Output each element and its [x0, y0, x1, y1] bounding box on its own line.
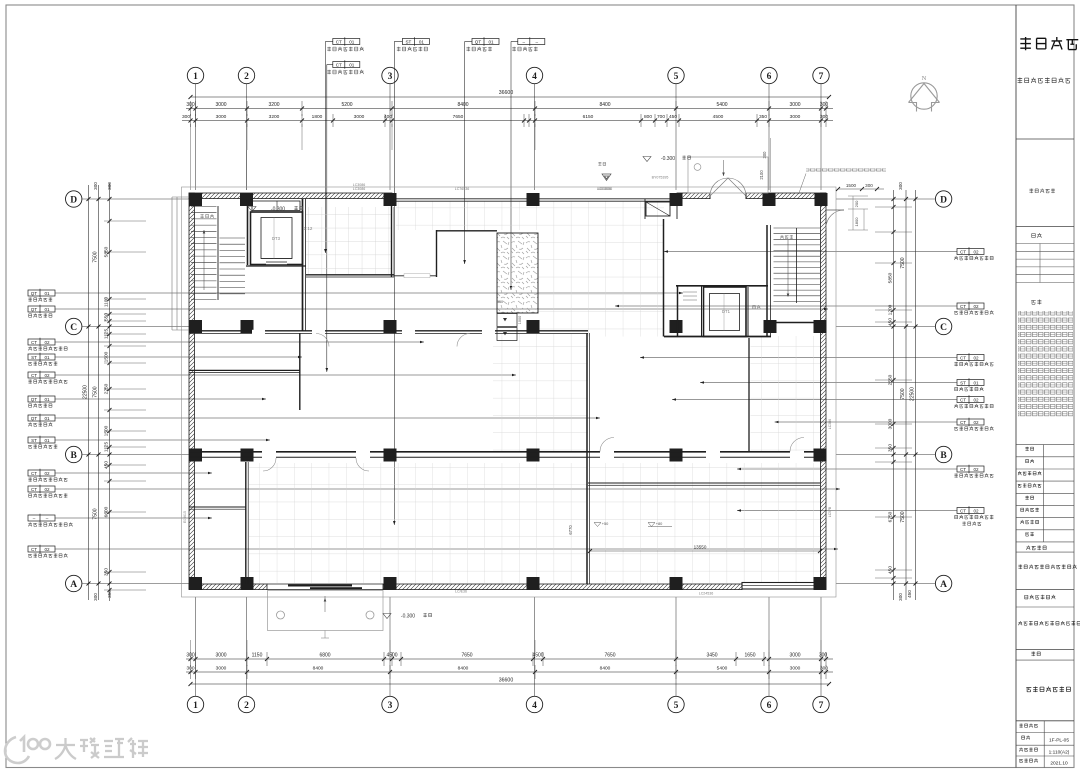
left dimension vertical lines — [88, 185, 90, 600]
right callout CT02 at y399.5 — [957, 397, 984, 403]
svg-text:450: 450 — [907, 590, 912, 598]
grid bubble 1 top — [187, 67, 203, 83]
right callout CT02 at y357.5 — [957, 355, 984, 361]
svg-text:1500: 1500 — [104, 425, 110, 436]
svg-text:3450: 3450 — [706, 653, 717, 659]
svg-text:4500: 4500 — [532, 653, 543, 659]
top witness line stubs — [190, 124, 192, 150]
svg-text:LC76536: LC76536 — [455, 187, 470, 191]
wall between stair and lift DT3 — [247, 199, 249, 265]
svg-text:3000: 3000 — [216, 666, 227, 672]
left callout ST01 at y440 — [28, 437, 55, 443]
stair 2 treads left flight — [191, 206, 217, 208]
svg-text:13550: 13550 — [694, 545, 707, 550]
title block divider above project section — [1016, 589, 1074, 591]
lift DT3 shaft — [251, 212, 303, 265]
ramp at left outside wall — [171, 197, 173, 330]
svg-text:CT: CT — [960, 304, 966, 309]
bottom exterior wall left segment — [189, 584, 267, 590]
door swing arcs at B wall — [600, 438, 614, 452]
bottom wall right corner segment — [817, 584, 826, 590]
grid line 6 bottom segment — [768, 597, 770, 696]
svg-text:1125: 1125 — [104, 329, 110, 340]
wall right of leaf room zone — [663, 219, 665, 337]
svg-text:CT: CT — [31, 373, 37, 378]
title block 工程项目名称 header — [1025, 595, 1056, 600]
svg-text:8400: 8400 — [599, 102, 610, 108]
svg-text:1800: 1800 — [312, 114, 323, 120]
svg-text:CT: CT — [31, 471, 37, 476]
top callout ST01 grey stone threshold — [402, 39, 429, 45]
svg-text:+80: +80 — [656, 521, 663, 526]
svg-text:01: 01 — [349, 39, 355, 44]
left dimension ticks — [87, 197, 91, 201]
grid line 7 bottom segment — [820, 597, 822, 696]
top callout CT01 600x600 anti-slip tile (lower) — [333, 62, 360, 68]
svg-text:5850: 5850 — [888, 272, 894, 283]
svg-text:3200: 3200 — [269, 114, 280, 120]
partition wall right of lift zone — [302, 199, 304, 331]
svg-text:D: D — [940, 195, 947, 205]
bottom dimension row 2 — [186, 671, 833, 673]
title block 图号 row — [1022, 736, 1030, 740]
exterior wall note with leader — [806, 169, 886, 174]
left callout ST01 at y357 — [28, 354, 55, 360]
left callout CT02 at y375 — [28, 372, 55, 378]
svg-text:3: 3 — [388, 72, 393, 82]
svg-text:LC01536: LC01536 — [598, 187, 613, 191]
bottom witness stubs — [190, 640, 192, 652]
svg-text:4: 4 — [532, 701, 537, 711]
svg-text:7500: 7500 — [900, 257, 906, 268]
svg-text:02: 02 — [973, 304, 979, 309]
stair 1 treads — [774, 227, 821, 229]
grid bubble 6 bottom — [761, 696, 777, 712]
stair 2 label — [200, 214, 213, 218]
entrance canopy bottom — [268, 591, 384, 631]
svg-text:BY075395: BY075395 — [652, 176, 669, 180]
tile floor area rooms right above B — [751, 336, 821, 451]
svg-text:300: 300 — [819, 653, 828, 659]
svg-text:CT: CT — [960, 508, 966, 513]
svg-text:01: 01 — [44, 355, 50, 360]
room partition wall below C at left — [299, 333, 301, 410]
svg-text:CT: CT — [336, 39, 342, 44]
svg-text:300: 300 — [820, 666, 828, 672]
svg-text:01: 01 — [488, 39, 494, 44]
grid bubble 7 bottom — [813, 696, 829, 712]
svg-text:D: D — [70, 195, 77, 205]
svg-text:3: 3 — [388, 701, 393, 711]
grid line 7 top segment — [820, 84, 822, 190]
svg-text:LC57B: LC57B — [828, 506, 832, 517]
north arrow symbol — [909, 83, 940, 112]
grid line 3 top segment — [389, 84, 391, 190]
grid bubble 2 top — [238, 67, 254, 83]
svg-text:7: 7 — [819, 72, 824, 82]
svg-text:ST: ST — [960, 380, 966, 385]
svg-text:7500: 7500 — [93, 386, 99, 397]
right callout CT02 at y251.5 — [957, 249, 984, 255]
svg-text:QT: QT — [31, 416, 38, 421]
grid row line A left — [82, 583, 189, 585]
wall below lift DT3 — [246, 265, 306, 267]
tile floor big bottom-left area — [249, 463, 587, 583]
svg-text:7650: 7650 — [461, 653, 472, 659]
svg-text:B: B — [71, 451, 78, 461]
level marker +80 — [648, 523, 655, 527]
svg-text:DT3: DT3 — [272, 236, 281, 241]
tile floor strip along top window band — [396, 201, 664, 230]
svg-text:3000: 3000 — [354, 114, 365, 120]
svg-text:CT: CT — [960, 420, 966, 425]
title block bottom info table — [1016, 720, 1074, 722]
svg-text:3000: 3000 — [215, 653, 226, 659]
grid bubble B right — [935, 446, 951, 462]
left callout –– at y518 — [28, 515, 55, 521]
svg-text:350: 350 — [759, 114, 767, 120]
tile floor big bottom-right area — [590, 463, 820, 583]
svg-text:300: 300 — [820, 114, 828, 120]
svg-text:1125: 1125 — [104, 442, 110, 453]
svg-text:LC3086: LC3086 — [353, 183, 366, 187]
bottom window band right — [742, 583, 817, 590]
svg-text:ST: ST — [405, 39, 411, 44]
svg-text:+50: +50 — [602, 521, 609, 526]
horizontal wall y371 left rooms — [189, 369, 300, 371]
stair 1 direction arrow — [787, 240, 789, 295]
right callout CT02 at y510.5 — [957, 508, 984, 514]
grid bubble A right — [935, 575, 951, 591]
svg-text:300: 300 — [898, 593, 903, 601]
watermark text 大数跨境 — [55, 738, 148, 759]
title block drawing title 一层地面铺装图 — [1026, 687, 1070, 693]
svg-text:01: 01 — [44, 307, 50, 312]
horizontal partition y484 right rooms — [588, 482, 820, 484]
svg-text:CT: CT — [960, 397, 966, 402]
title block project name 浙江高新区药物内部装修项目 — [1018, 621, 1080, 626]
stair 1 label — [780, 235, 793, 239]
title block signature table — [1016, 243, 1074, 245]
svg-text:02: 02 — [44, 487, 50, 492]
svg-text:CT: CT — [31, 547, 37, 552]
building outer offset outline — [182, 187, 837, 597]
svg-text:300: 300 — [93, 182, 98, 190]
right callout CT02 at y469 — [957, 466, 984, 472]
title block approval table — [1016, 444, 1074, 446]
svg-text:LC3086: LC3086 — [353, 187, 366, 191]
svg-text:36600: 36600 — [499, 678, 514, 684]
anti-static leaf pattern floor room — [497, 233, 538, 313]
title block small header text — [1029, 189, 1054, 194]
svg-text:8400: 8400 — [600, 666, 611, 672]
thin wall continuation with label — [394, 275, 437, 277]
svg-text:02: 02 — [973, 508, 979, 513]
grid bubble D left — [66, 191, 82, 207]
wall right edge of top-center tile room — [391, 199, 393, 277]
lift DT1 car — [710, 294, 740, 331]
svg-text:QT: QT — [475, 39, 482, 44]
smoke vent notch in top wall — [646, 202, 670, 216]
grid bubble 4 top — [526, 67, 542, 83]
tile floor area top-center 600x600 — [306, 207, 392, 274]
stair 1 stringer — [796, 228, 798, 303]
svg-text:-0.300: -0.300 — [271, 207, 285, 213]
svg-text:450: 450 — [669, 114, 677, 120]
grid bubble 3 bottom — [382, 696, 398, 712]
svg-text:QT: QT — [31, 291, 38, 296]
lift lobby top wall — [676, 285, 768, 287]
stair 2 treads right flight — [220, 237, 246, 239]
svg-text:8400: 8400 — [457, 102, 468, 108]
grid line 4 top segment — [534, 84, 536, 190]
svg-text:300: 300 — [107, 182, 112, 190]
top callout anti-static floor — [518, 39, 545, 45]
title block 工程编号 label — [1019, 724, 1037, 728]
lift lobby left wall — [677, 285, 679, 337]
left callout CT02 at y473 — [28, 470, 55, 476]
left exterior wall — [189, 193, 195, 589]
title block section 会签 header — [1032, 233, 1042, 238]
grid row line A right — [836, 583, 935, 585]
svg-text:CT: CT — [31, 487, 37, 492]
svg-text:300: 300 — [898, 182, 903, 190]
svg-text:1150: 1150 — [252, 653, 263, 659]
svg-text:350: 350 — [107, 590, 112, 598]
watermark logo 100 — [5, 737, 50, 763]
svg-text:01: 01 — [349, 62, 355, 67]
svg-text:01: 01 — [44, 438, 50, 443]
svg-text:6800: 6800 — [319, 653, 330, 659]
svg-text:DT1: DT1 — [722, 309, 731, 314]
grid line 2 bottom segment — [246, 597, 248, 696]
svg-text:1100: 1100 — [104, 297, 110, 308]
svg-text:700: 700 — [657, 114, 665, 120]
svg-text:1650: 1650 — [744, 653, 755, 659]
right dimension vertical lines — [893, 190, 895, 600]
svg-text:3200: 3200 — [268, 102, 279, 108]
svg-text:–: – — [523, 39, 526, 44]
left callout CT02 at y549 — [28, 546, 55, 552]
svg-text:300: 300 — [762, 151, 767, 159]
outdoor level marker -0.300 at entrance — [643, 157, 651, 162]
svg-text:A: A — [940, 580, 947, 590]
svg-text:5400: 5400 — [716, 102, 727, 108]
title block 设计单位 header — [1026, 546, 1046, 551]
left callout QT01 at y418 — [28, 415, 55, 421]
outdoor level marker -0.300 left — [248, 207, 256, 212]
svg-text:7500: 7500 — [900, 511, 906, 522]
title block 备注 header — [1031, 300, 1041, 305]
svg-text:01: 01 — [44, 397, 50, 402]
svg-text:ST: ST — [31, 355, 37, 360]
svg-text:E05615: E05615 — [183, 511, 187, 523]
svg-text:N: N — [922, 75, 927, 82]
top callout CT01 600x600 anti-slip tile (upper) — [333, 39, 360, 45]
svg-text:22500: 22500 — [83, 385, 89, 399]
C row corridor wall — [189, 330, 588, 332]
svg-text:1:12: 1:12 — [304, 226, 313, 231]
svg-text:300: 300 — [820, 102, 829, 108]
B row wall door gaps — [262, 451, 276, 459]
title block 出图比例 row — [1019, 748, 1037, 752]
svg-text:300: 300 — [865, 183, 873, 188]
grid bubble B left — [66, 446, 82, 462]
vertical wall left of leaf room lobby — [436, 230, 438, 277]
svg-text:1500: 1500 — [846, 183, 857, 188]
partition wall x750 above B — [748, 338, 750, 451]
top exterior wall hatched right segment — [746, 193, 826, 199]
svg-text:7650: 7650 — [604, 653, 615, 659]
right callout ST01 at y382.5 — [957, 380, 984, 386]
svg-text:CT: CT — [960, 467, 966, 472]
top callout QT01 epoxy floor paint — [472, 39, 499, 45]
svg-text:CT: CT — [336, 62, 342, 67]
svg-text:6600: 6600 — [104, 506, 110, 517]
top exterior wall hatched left segment — [189, 193, 392, 199]
grid row line D left — [82, 198, 189, 200]
svg-text:2550: 2550 — [888, 374, 894, 385]
grid bubble 6 top — [761, 67, 777, 83]
svg-text:300: 300 — [186, 666, 194, 672]
svg-text:3000: 3000 — [215, 102, 226, 108]
svg-text:02: 02 — [44, 471, 50, 476]
svg-text:3000: 3000 — [789, 653, 800, 659]
left callout QT01 at y399 — [28, 396, 55, 402]
svg-text:8400: 8400 — [458, 666, 469, 672]
svg-text:C: C — [70, 323, 77, 333]
left callout QT01 at y293 — [28, 290, 55, 296]
svg-text:450: 450 — [888, 566, 894, 574]
right callout CT02 at y306 — [957, 303, 984, 309]
svg-text:-0.300: -0.300 — [401, 614, 415, 620]
svg-text:3000: 3000 — [216, 114, 227, 120]
lift lobby bottom wall — [664, 336, 771, 338]
svg-text:–: – — [33, 516, 36, 521]
svg-text:2: 2 — [244, 701, 249, 711]
svg-text:300: 300 — [93, 593, 98, 601]
svg-text:2: 2 — [244, 72, 249, 82]
svg-text:QT: QT — [31, 307, 38, 312]
svg-text:7: 7 — [819, 701, 824, 711]
grid row line C right — [836, 326, 935, 328]
svg-text:4500: 4500 — [713, 114, 724, 120]
grid line 6 top segment — [768, 84, 770, 190]
svg-text:LC/E36: LC/E36 — [455, 590, 467, 594]
grid line 1 top segment — [195, 84, 197, 190]
title block company logo text 杭州上匠 — [1020, 37, 1078, 50]
svg-text:2100: 2100 — [759, 170, 764, 180]
side exit door swing at right wall — [826, 210, 844, 228]
svg-text:3000: 3000 — [790, 666, 801, 672]
tile floor area mid-left of partition — [493, 334, 588, 452]
stair 2 center divider — [217, 206, 219, 300]
svg-text:02: 02 — [44, 373, 50, 378]
svg-text:3000: 3000 — [790, 114, 801, 120]
rain canopy marker — [598, 162, 605, 166]
svg-text:02: 02 — [973, 249, 979, 254]
grid line 3 bottom segment — [389, 597, 391, 696]
svg-text:01: 01 — [44, 416, 50, 421]
level marker +50 — [594, 523, 601, 527]
title block notes paragraph — [1018, 311, 1073, 417]
grid bubble 3 top — [382, 67, 398, 83]
svg-text:7650: 7650 — [453, 114, 464, 120]
toilet fixtures below leaf room — [497, 314, 517, 327]
svg-text:1:110(A2): 1:110(A2) — [1049, 750, 1070, 756]
svg-text:–: – — [536, 39, 539, 44]
svg-text:6: 6 — [767, 701, 772, 711]
right callout extra desc line 疏散通台 — [962, 522, 981, 526]
svg-text:–: – — [46, 516, 49, 521]
lift DT3 car — [261, 218, 292, 259]
svg-text:CT: CT — [960, 249, 966, 254]
svg-text:1F-PL-05: 1F-PL-05 — [1049, 738, 1069, 744]
top overall dimension line 36600 — [191, 96, 830, 98]
grid line 5 bottom segment — [675, 597, 677, 696]
svg-text:400: 400 — [384, 114, 392, 120]
machine room right of DT1 — [747, 287, 749, 337]
svg-text:3000: 3000 — [888, 418, 894, 429]
svg-text:4: 4 — [532, 72, 537, 82]
lift DT1 shaft — [704, 287, 747, 337]
top exterior wall hatched mid segment — [677, 193, 710, 199]
svg-text:450: 450 — [104, 461, 110, 469]
svg-text:ST: ST — [31, 438, 37, 443]
bottom dimension row 1 — [186, 658, 833, 660]
svg-text:02: 02 — [973, 467, 979, 472]
svg-text:450: 450 — [888, 318, 894, 326]
grid line 4 bottom segment — [534, 597, 536, 696]
svg-text:02: 02 — [973, 397, 979, 402]
svg-text:01: 01 — [973, 380, 979, 385]
grid bubble C left — [66, 318, 82, 334]
grid bubble A left — [66, 575, 82, 591]
svg-text:02: 02 — [973, 355, 979, 360]
svg-text:850: 850 — [497, 300, 503, 304]
svg-text:7500: 7500 — [93, 251, 99, 262]
svg-text:5400: 5400 — [717, 666, 728, 672]
main entrance double door — [709, 193, 711, 199]
svg-text:LC3B6: LC3B6 — [828, 419, 832, 429]
svg-text:350: 350 — [888, 444, 894, 452]
grid row line B right — [836, 454, 935, 456]
svg-text:02: 02 — [973, 420, 979, 425]
svg-text:-0.300: -0.300 — [661, 156, 675, 162]
vertical wall x246 below B — [245, 462, 247, 584]
bottom exterior wall mid segment — [383, 584, 742, 590]
svg-text:800: 800 — [644, 114, 652, 120]
svg-text:5200: 5200 — [341, 102, 352, 108]
svg-text:1: 1 — [193, 701, 198, 711]
title block design company name — [1018, 565, 1076, 570]
dimension 13550 inside plan — [590, 550, 820, 552]
svg-text:300: 300 — [186, 653, 195, 659]
svg-text:02: 02 — [44, 547, 50, 552]
grid bubble C right — [935, 318, 951, 334]
svg-text:CT: CT — [960, 355, 966, 360]
grid bubble D right — [935, 191, 951, 207]
grid line 1 bottom segment — [195, 597, 197, 696]
grid bubble 1 bottom — [187, 696, 203, 712]
C row wall door gaps — [252, 330, 265, 335]
title block divider line 2 — [1016, 226, 1074, 228]
long vertical partition x588 — [586, 333, 588, 584]
svg-text:1800: 1800 — [854, 217, 859, 227]
svg-text:2250: 2250 — [104, 383, 110, 394]
grid row line D right — [836, 198, 935, 200]
svg-text:350: 350 — [104, 568, 110, 576]
